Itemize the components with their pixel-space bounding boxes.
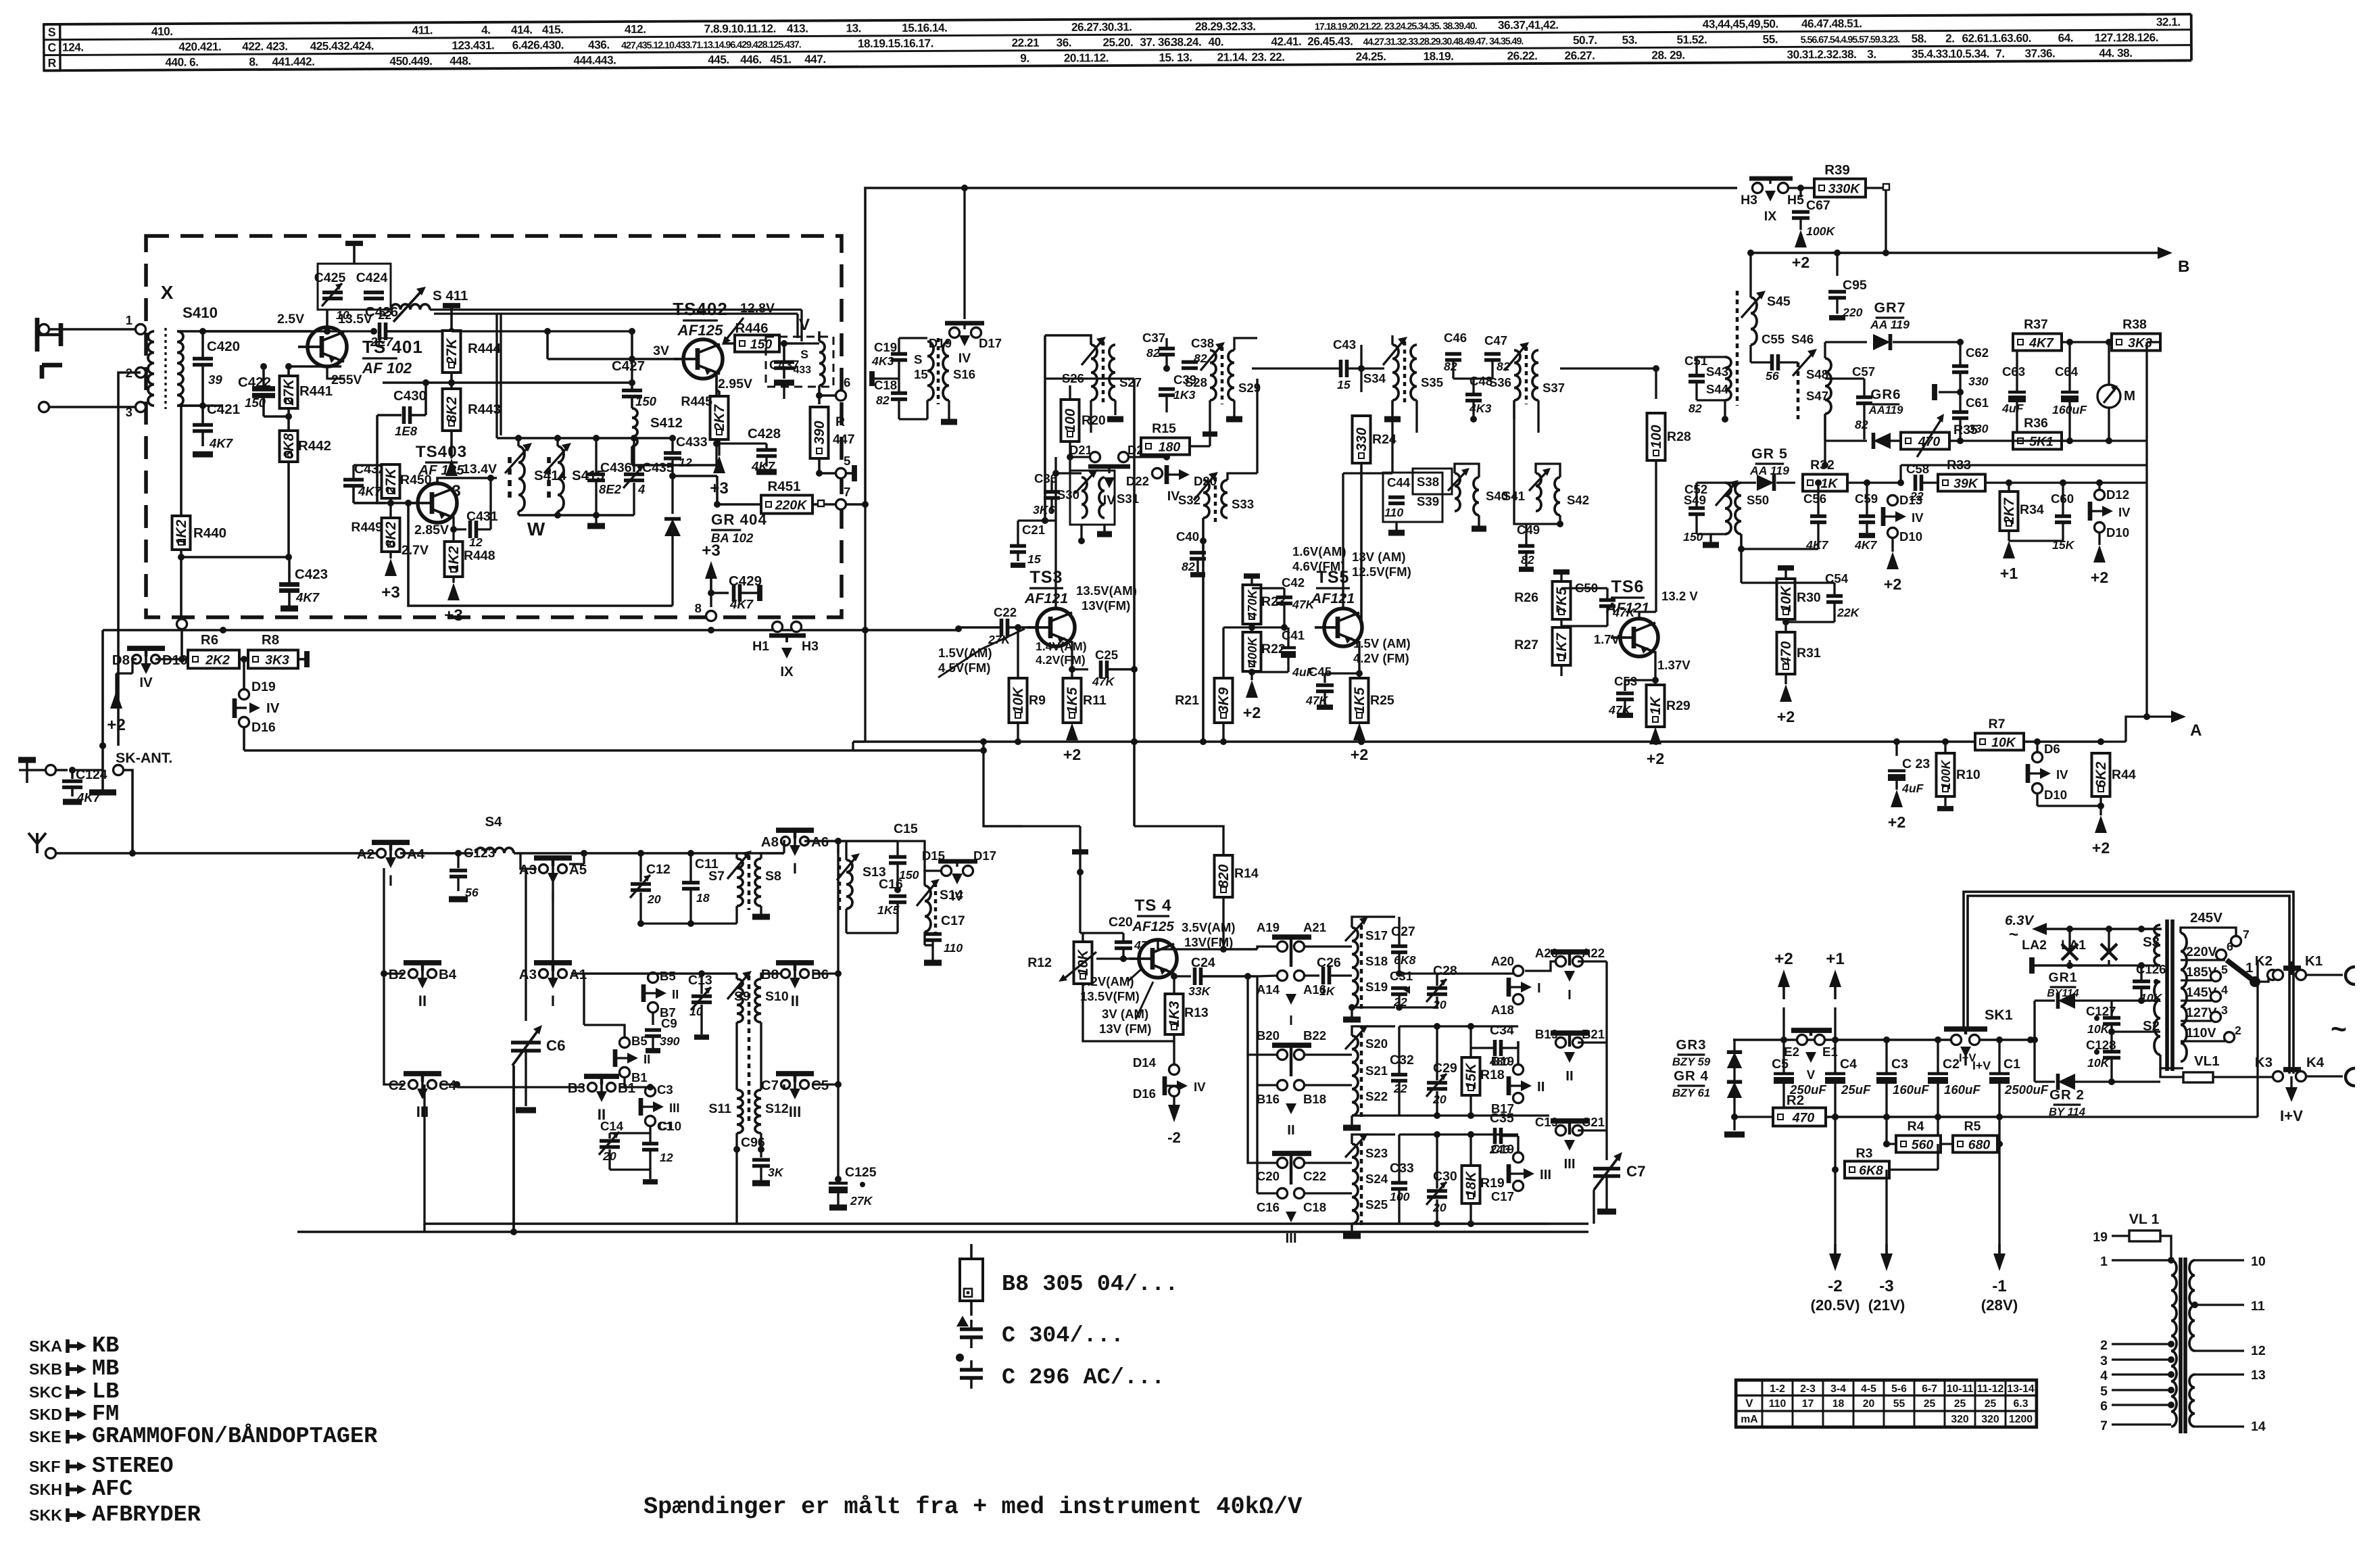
svg-text:445.: 445. bbox=[708, 53, 729, 66]
svg-text:C67: C67 bbox=[1806, 198, 1830, 213]
capacitor C59 bbox=[1854, 483, 1878, 552]
svg-text:13.5V(FM): 13.5V(FM) bbox=[1080, 989, 1140, 1003]
svg-text:C47: C47 bbox=[1484, 333, 1507, 348]
svg-text:SKK: SKK bbox=[29, 1506, 62, 1524]
svg-text:STEREO: STEREO bbox=[92, 1454, 174, 1479]
svg-text:GR 5: GR 5 bbox=[1751, 446, 1788, 462]
svg-text:58.: 58. bbox=[1912, 32, 1927, 45]
resistor R19 bbox=[1462, 1131, 1505, 1227]
svg-text:9.: 9. bbox=[1020, 51, 1029, 65]
capacitor C2 bbox=[1928, 1040, 1981, 1147]
svg-text:C427: C427 bbox=[612, 358, 645, 374]
svg-text:64.: 64. bbox=[2058, 31, 2074, 45]
svg-text:30.31.2.32.38.: 30.31.2.32.38. bbox=[1787, 47, 1856, 61]
svg-text:D6: D6 bbox=[2044, 742, 2060, 756]
primary tap 7 bbox=[2100, 1418, 2171, 1433]
svg-text:20: 20 bbox=[1432, 1201, 1447, 1214]
coils S40 S41 S42 bbox=[1455, 400, 1589, 529]
svg-text:8K2: 8K2 bbox=[383, 521, 399, 548]
svg-text:C64: C64 bbox=[2055, 364, 2079, 379]
svg-text:22K: 22K bbox=[1837, 606, 1860, 619]
svg-text:R440: R440 bbox=[193, 525, 226, 541]
voltage 1.7V bbox=[1594, 632, 1620, 646]
svg-text:+1: +1 bbox=[2000, 565, 2018, 582]
svg-text:160uF: 160uF bbox=[1944, 1082, 1981, 1097]
svg-text:S36: S36 bbox=[1489, 375, 1511, 389]
resistor R11 bbox=[1063, 669, 1107, 723]
coil S14 bbox=[917, 872, 963, 945]
switch legend SKA-SKK bbox=[29, 1333, 378, 1528]
resistor R25 bbox=[1351, 673, 1394, 723]
svg-text:255V: 255V bbox=[331, 373, 362, 387]
resistor R14 bbox=[1134, 826, 1259, 949]
resistor R28 bbox=[1560, 365, 1691, 460]
svg-text:TS3: TS3 bbox=[1029, 568, 1063, 587]
wire C433 node to R451 bbox=[673, 476, 721, 508]
resistor R447 bbox=[810, 396, 855, 477]
lamp return bar bbox=[2032, 957, 2145, 974]
resistor R29 bbox=[1647, 680, 1691, 727]
resistor R18 bbox=[1462, 1023, 1505, 1119]
resistor R31 bbox=[1777, 632, 1821, 684]
capacitor C5 bbox=[1772, 1040, 1826, 1120]
svg-text:82: 82 bbox=[1521, 553, 1534, 567]
capacitors C46 C47 C48 bbox=[1444, 331, 1510, 423]
IF transformer S28 S29 bbox=[1185, 342, 1261, 433]
coil S48 S47 bbox=[1798, 342, 1831, 469]
svg-text:SKA: SKA bbox=[29, 1337, 62, 1355]
wire left vertical bbox=[99, 630, 106, 749]
svg-text:C14: C14 bbox=[600, 1119, 624, 1133]
svg-text:+2: +2 bbox=[107, 716, 126, 734]
svg-text:R14: R14 bbox=[1234, 866, 1259, 881]
switch SK1 bbox=[1944, 1007, 2013, 1072]
svg-text:8K2: 8K2 bbox=[444, 396, 460, 423]
svg-text:I: I bbox=[1289, 1013, 1293, 1028]
trimmer C13 bbox=[584, 970, 737, 1037]
switch D19 D16 bbox=[235, 659, 280, 750]
svg-text:13.2 V: 13.2 V bbox=[1661, 589, 1698, 603]
primary tap 6 bbox=[2100, 1399, 2175, 1414]
diode GR6 and R35 bbox=[1825, 387, 2070, 457]
svg-text:14: 14 bbox=[2251, 1419, 2266, 1434]
svg-text:1K2: 1K2 bbox=[446, 546, 462, 572]
svg-text:S27: S27 bbox=[1119, 375, 1142, 389]
svg-text:1200: 1200 bbox=[2009, 1414, 2033, 1425]
svg-text:H3: H3 bbox=[1741, 193, 1757, 208]
wire bbox=[177, 402, 206, 409]
antenna input terminal 3 bbox=[39, 402, 146, 420]
wire D16 to TS4 area bbox=[244, 747, 987, 754]
svg-text:GR7: GR7 bbox=[1874, 300, 1906, 316]
variable capacitor C6 bbox=[511, 869, 566, 1110]
svg-text:4: 4 bbox=[2100, 1368, 2108, 1383]
svg-text:R442: R442 bbox=[298, 438, 331, 454]
svg-text:S12: S12 bbox=[765, 1101, 789, 1116]
voltage TS3 base ext bbox=[938, 629, 1025, 677]
switch B19 B17 arrow bbox=[1491, 1041, 1545, 1116]
svg-text:C31: C31 bbox=[1390, 969, 1413, 983]
svg-text:C433: C433 bbox=[676, 435, 708, 450]
svg-text:220V: 220V bbox=[2186, 945, 2217, 959]
svg-text:K3: K3 bbox=[2255, 1055, 2273, 1070]
capacitor C17 bbox=[924, 913, 965, 963]
svg-text:R445: R445 bbox=[681, 394, 712, 409]
wire to bus bbox=[117, 608, 120, 746]
svg-text:S410: S410 bbox=[183, 304, 218, 321]
svg-text:R13: R13 bbox=[1184, 1005, 1209, 1020]
svg-text:C 304/...: C 304/... bbox=[1002, 1323, 1124, 1349]
svg-text:S: S bbox=[48, 25, 56, 39]
wire bus to vertical 1280 bbox=[853, 504, 865, 750]
svg-text:15: 15 bbox=[914, 367, 928, 381]
oscillator block bottom wire bbox=[518, 512, 634, 526]
capacitor C37 bbox=[1142, 331, 1175, 372]
svg-text:3K: 3K bbox=[768, 1166, 784, 1179]
svg-text:S37: S37 bbox=[1543, 381, 1565, 395]
svg-text:TS 4: TS 4 bbox=[1134, 897, 1171, 915]
wire bbox=[383, 379, 635, 392]
capacitor C23 bbox=[1888, 738, 1930, 795]
wire AFC line bbox=[1901, 465, 2147, 483]
svg-text:150: 150 bbox=[750, 337, 773, 352]
svg-text:V: V bbox=[799, 316, 810, 334]
coil S49 S50 C52 bbox=[1683, 480, 1769, 552]
winding voltage table bbox=[1736, 1380, 2037, 1428]
svg-text:12.5V(FM): 12.5V(FM) bbox=[1352, 565, 1411, 579]
svg-text:B4: B4 bbox=[439, 967, 457, 982]
svg-text:1: 1 bbox=[2100, 1254, 2108, 1269]
svg-text:S46: S46 bbox=[1791, 332, 1814, 346]
svg-text:451.: 451. bbox=[770, 52, 792, 66]
svg-text:1-2: 1-2 bbox=[1770, 1383, 1785, 1395]
svg-text:C44: C44 bbox=[1387, 475, 1411, 489]
emitter wire TS3 bbox=[1069, 641, 1088, 673]
svg-text:S34: S34 bbox=[1363, 371, 1386, 385]
svg-text:10-11: 10-11 bbox=[1947, 1383, 1974, 1395]
svg-text:S39: S39 bbox=[1417, 494, 1439, 508]
svg-text:C34: C34 bbox=[1490, 1023, 1514, 1038]
svg-text:33K: 33K bbox=[1188, 984, 1211, 998]
resistor R4 bbox=[1887, 1117, 2003, 1258]
svg-text:44. 38.: 44. 38. bbox=[2099, 46, 2132, 59]
svg-text:SK-ANT.: SK-ANT. bbox=[116, 750, 172, 766]
trimmer C30 bbox=[1399, 1131, 1518, 1227]
svg-text:R20: R20 bbox=[1082, 413, 1106, 428]
svg-text:S22: S22 bbox=[1365, 1089, 1388, 1103]
FM tuned line drop to oscillator block bbox=[497, 314, 501, 438]
svg-text:GR 404: GR 404 bbox=[711, 511, 767, 528]
svg-text:8.: 8. bbox=[249, 55, 258, 68]
svg-text:(21V): (21V) bbox=[1868, 1297, 1905, 1314]
capacitor C64 bbox=[2052, 339, 2087, 444]
svg-text:S11: S11 bbox=[708, 1101, 731, 1116]
svg-text:D19: D19 bbox=[251, 679, 276, 694]
primary tap 2 bbox=[2100, 1338, 2175, 1353]
trimmer C12 bbox=[630, 853, 671, 927]
svg-text:4.6V(FM): 4.6V(FM) bbox=[1292, 559, 1344, 573]
svg-text:422. 423.: 422. 423. bbox=[242, 39, 287, 53]
svg-text:18: 18 bbox=[696, 891, 710, 905]
svg-text:32.1.: 32.1. bbox=[2156, 15, 2181, 28]
svg-text:C40: C40 bbox=[1176, 529, 1199, 544]
antenna symbol bbox=[28, 833, 136, 859]
antenna input terminal 1 bbox=[39, 313, 146, 335]
svg-text:H1: H1 bbox=[752, 639, 769, 654]
wire from D10 to R6 bbox=[155, 619, 188, 663]
wire band1 line bbox=[584, 850, 784, 857]
svg-text:1.7V: 1.7V bbox=[1594, 632, 1620, 646]
base wire TS403 bbox=[354, 500, 414, 506]
capacitor C63 bbox=[2001, 339, 2026, 444]
coil S43 S44 C51 bbox=[1684, 291, 1737, 423]
svg-text:6: 6 bbox=[2227, 940, 2233, 953]
capacitor C33 bbox=[1352, 1134, 1549, 1224]
wire S45 node bbox=[1747, 249, 1754, 297]
svg-text:55.: 55. bbox=[1763, 32, 1778, 46]
svg-text:1: 1 bbox=[2245, 960, 2253, 976]
svg-text:6K8: 6K8 bbox=[1394, 953, 1416, 967]
svg-text:(28V): (28V) bbox=[1981, 1297, 2018, 1314]
lamp LA1 bbox=[2061, 929, 2117, 965]
svg-text:10K: 10K bbox=[2087, 1022, 2110, 1036]
svg-text:26.27.30.31.: 26.27.30.31. bbox=[1071, 20, 1132, 33]
capacitor C38 bbox=[1182, 336, 1214, 368]
IF transformer S26 S27 bbox=[1045, 335, 1142, 433]
wire AFC vertical bbox=[2143, 713, 2150, 720]
switch C7 C5 bbox=[761, 974, 842, 1120]
svg-text:SKH: SKH bbox=[29, 1481, 62, 1498]
capacitor C25 bbox=[1092, 648, 1138, 688]
label TS5 AF121 bbox=[1311, 568, 1355, 606]
capacitor C421 bbox=[193, 402, 240, 454]
capacitor C126 bbox=[2133, 962, 2166, 1005]
svg-text:25: 25 bbox=[1954, 1398, 1966, 1410]
svg-text:C57: C57 bbox=[1852, 364, 1875, 379]
svg-text:100K: 100K bbox=[1939, 759, 1953, 789]
svg-text:C3: C3 bbox=[1891, 1057, 1908, 1072]
svg-text:127.128.126.: 127.128.126. bbox=[2095, 30, 2158, 44]
svg-text:R12: R12 bbox=[1027, 955, 1052, 970]
svg-text:R10: R10 bbox=[1956, 767, 1981, 782]
svg-text:C22: C22 bbox=[1303, 1169, 1326, 1183]
svg-text:A3: A3 bbox=[519, 967, 537, 982]
voltage 2.85V bbox=[414, 523, 449, 537]
svg-text:S32: S32 bbox=[1178, 493, 1200, 507]
svg-text:560: 560 bbox=[1912, 1138, 1934, 1153]
svg-text:R30: R30 bbox=[1797, 590, 1821, 605]
svg-text:4: 4 bbox=[637, 482, 646, 496]
svg-text:C428: C428 bbox=[748, 426, 781, 441]
svg-text:15K: 15K bbox=[1463, 1062, 1479, 1089]
resistor R2 bbox=[1734, 960, 2258, 1126]
svg-text:R: R bbox=[835, 414, 845, 429]
svg-text:GR3: GR3 bbox=[1676, 1037, 1706, 1053]
svg-text:BZY 61: BZY 61 bbox=[1672, 1086, 1710, 1099]
svg-text:+2: +2 bbox=[1063, 746, 1081, 763]
svg-text:C21: C21 bbox=[1022, 523, 1045, 537]
svg-text:6.3: 6.3 bbox=[2014, 1398, 2029, 1410]
svg-text:R7: R7 bbox=[1989, 717, 2006, 732]
svg-text:3K3: 3K3 bbox=[265, 653, 289, 668]
supply +2 under R29 bbox=[1647, 727, 1664, 767]
svg-text:IV: IV bbox=[139, 675, 153, 690]
svg-text:LA2: LA2 bbox=[2022, 938, 2047, 953]
svg-text:A8: A8 bbox=[761, 834, 779, 850]
svg-text:C56: C56 bbox=[1803, 492, 1826, 506]
voltage 13.5V bbox=[338, 312, 372, 327]
resistor R24 bbox=[1353, 345, 1397, 627]
TS5 voltages bbox=[1292, 544, 1411, 665]
svg-text:20.11.12.: 20.11.12. bbox=[1064, 51, 1109, 64]
svg-text:GR 4: GR 4 bbox=[1674, 1068, 1709, 1084]
capacitor C428 bbox=[713, 426, 781, 473]
svg-text:S7: S7 bbox=[708, 869, 725, 884]
box S30 S31 with C36 bbox=[1033, 469, 1139, 544]
svg-text:X: X bbox=[161, 282, 174, 303]
svg-text:50.7.: 50.7. bbox=[1573, 33, 1597, 47]
svg-text:2E7: 2E7 bbox=[370, 335, 394, 349]
supply +3 near R445 bbox=[710, 446, 729, 498]
capacitor C21 bbox=[1010, 335, 1048, 566]
svg-text:13.5V(AM): 13.5V(AM) bbox=[1076, 583, 1137, 598]
switch E2 E1 bbox=[1784, 1030, 1838, 1082]
wire collector TS401 to C426 bbox=[311, 310, 377, 335]
svg-text:+2: +2 bbox=[1884, 575, 1901, 593]
capacitor C429 bbox=[702, 542, 762, 611]
svg-text:27K: 27K bbox=[988, 633, 1011, 646]
svg-text:C43: C43 bbox=[1333, 337, 1356, 352]
svg-text:A14: A14 bbox=[1257, 982, 1280, 997]
svg-text:+2: +2 bbox=[1774, 950, 1793, 968]
svg-text:C420: C420 bbox=[207, 339, 240, 354]
svg-text:VL1: VL1 bbox=[2194, 1053, 2220, 1069]
trimmer C29 bbox=[1399, 1023, 1518, 1119]
svg-text:12.8V: 12.8V bbox=[740, 301, 775, 316]
svg-text:4: 4 bbox=[2221, 983, 2228, 997]
svg-text:R29: R29 bbox=[1666, 698, 1691, 713]
svg-text:441.442.: 441.442. bbox=[272, 55, 314, 68]
label TS4 AF125 bbox=[1132, 897, 1174, 934]
svg-text:C21: C21 bbox=[1582, 1115, 1605, 1129]
svg-text:R28: R28 bbox=[1667, 429, 1691, 444]
svg-text:S21: S21 bbox=[1365, 1064, 1388, 1078]
transformer core bbox=[2167, 919, 2172, 1071]
svg-text:S38: S38 bbox=[1417, 475, 1439, 489]
svg-text:C20: C20 bbox=[1257, 1169, 1280, 1183]
svg-text:S25: S25 bbox=[1365, 1197, 1388, 1212]
oscillator bank S20 S21 S22 bbox=[1305, 1025, 1395, 1128]
svg-text:R37: R37 bbox=[2024, 317, 2048, 332]
resistor R448 bbox=[445, 529, 495, 583]
svg-text:C16: C16 bbox=[879, 877, 903, 892]
svg-text:A21: A21 bbox=[1303, 920, 1326, 934]
R22 C41 bbox=[1243, 627, 1315, 680]
svg-text:II: II bbox=[1565, 1068, 1573, 1084]
svg-text:AFC: AFC bbox=[92, 1477, 132, 1502]
switch B8 B6 bbox=[761, 963, 842, 1009]
svg-text:19: 19 bbox=[2093, 1230, 2108, 1245]
resistor R6 bbox=[188, 632, 239, 669]
svg-text:C16: C16 bbox=[1257, 1200, 1280, 1214]
svg-text:C15: C15 bbox=[894, 821, 918, 836]
oscillator coil S11 S12 bbox=[708, 1022, 788, 1153]
svg-text:26.45.43.: 26.45.43. bbox=[1307, 34, 1353, 48]
svg-text:21.14.: 21.14. bbox=[1217, 50, 1248, 64]
switch C19 C17 arrow bbox=[1491, 1136, 1551, 1203]
svg-text:2.85V: 2.85V bbox=[414, 523, 449, 537]
svg-text:40.: 40. bbox=[1209, 35, 1224, 49]
resistor R442 bbox=[181, 431, 331, 560]
svg-text:35.4.33.: 35.4.33. bbox=[1912, 47, 1951, 60]
svg-text:4K7: 4K7 bbox=[2029, 336, 2054, 351]
svg-text:820: 820 bbox=[1216, 864, 1232, 888]
svg-text:II: II bbox=[418, 993, 427, 1009]
svg-text:10.5.34.: 10.5.34. bbox=[1950, 47, 1989, 60]
svg-text:10K: 10K bbox=[2087, 1056, 2110, 1070]
svg-text:25uF: 25uF bbox=[1841, 1082, 1871, 1097]
emitter wire TS402 bbox=[715, 374, 718, 444]
svg-text:TS402: TS402 bbox=[673, 299, 728, 319]
variable capacitor C7 bbox=[1593, 1149, 1646, 1224]
svg-text:C20: C20 bbox=[1109, 915, 1133, 930]
svg-text:82: 82 bbox=[1855, 418, 1868, 431]
svg-text:SKC: SKC bbox=[29, 1383, 62, 1401]
svg-text:320: 320 bbox=[1951, 1414, 1969, 1425]
supply +2 left bbox=[107, 659, 132, 734]
switch cluster B5 II B7 bbox=[643, 969, 679, 1020]
svg-text:10K: 10K bbox=[1991, 736, 2017, 750]
svg-text:+3: +3 bbox=[444, 606, 463, 625]
switch A19 A21 / A14 A16 bbox=[1257, 920, 1326, 1028]
capacitor C35 bbox=[1489, 1111, 1518, 1156]
svg-text:R2: R2 bbox=[1787, 1093, 1804, 1108]
svg-text:440. 6.: 440. 6. bbox=[165, 55, 198, 69]
top bus to B bbox=[865, 188, 1737, 504]
svg-text:425.432.424.: 425.432.424. bbox=[310, 39, 374, 52]
capacitor C9 bbox=[645, 1012, 680, 1051]
svg-text:13V (AM): 13V (AM) bbox=[1352, 550, 1406, 564]
svg-text:1K5: 1K5 bbox=[1065, 687, 1080, 713]
svg-text:I: I bbox=[389, 872, 393, 889]
svg-text:AF 102: AF 102 bbox=[362, 360, 412, 377]
svg-text:6K2: 6K2 bbox=[2093, 761, 2109, 788]
wire collector to S30 box bbox=[1056, 457, 1082, 473]
svg-text:D8: D8 bbox=[112, 652, 130, 668]
svg-text:A20: A20 bbox=[1491, 954, 1514, 968]
secondary coil upper bbox=[2189, 1254, 2266, 1358]
svg-text:25: 25 bbox=[1985, 1398, 1997, 1410]
svg-text:I: I bbox=[1568, 987, 1572, 1003]
svg-text:R38: R38 bbox=[2122, 317, 2147, 332]
wire C6 column to bottom bbox=[512, 1066, 514, 1232]
rectifier GR1 BY114 bbox=[2031, 970, 2145, 1043]
capacitor C43 bbox=[1252, 337, 1384, 391]
svg-text:5-6: 5-6 bbox=[1891, 1383, 1907, 1395]
svg-text:1.63.60.: 1.63.60. bbox=[1992, 31, 2031, 45]
svg-text:K1: K1 bbox=[2305, 953, 2323, 969]
svg-text:AF125: AF125 bbox=[1132, 919, 1174, 934]
switch H1 H3 on bus bbox=[752, 622, 819, 680]
svg-text:B: B bbox=[2178, 258, 2189, 276]
resistor R444 bbox=[443, 306, 502, 386]
svg-text:100K: 100K bbox=[1806, 224, 1836, 238]
wire TS6 collector up bbox=[1639, 461, 1656, 619]
svg-text:C42: C42 bbox=[1282, 575, 1305, 590]
wire-location table top bbox=[44, 14, 2191, 70]
svg-text:+2: +2 bbox=[1777, 708, 1795, 725]
resistor R15 bbox=[1141, 421, 1217, 455]
